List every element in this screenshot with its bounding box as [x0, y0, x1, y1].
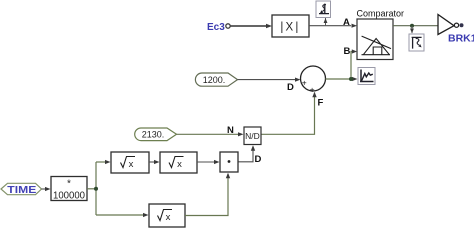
wire sqrt1 to sqrt2	[149, 160, 160, 164]
constant 2130	[135, 128, 177, 141]
svg-text:Comparator: Comparator	[357, 9, 405, 19]
junction node at gain output	[94, 187, 98, 191]
breaker output buffer triangle	[438, 15, 464, 35]
svg-text:N/D: N/D	[245, 131, 260, 141]
svg-text:*: *	[67, 179, 71, 190]
sqrt block X2	[160, 152, 197, 173]
wire gain output with junction split	[87, 162, 96, 215]
sqrt block X1	[111, 152, 149, 173]
svg-text:|X|: |X|	[280, 22, 300, 34]
sqrt block X3	[149, 204, 185, 227]
svg-text:A: A	[343, 17, 350, 28]
constant 1200	[195, 73, 237, 86]
wire Ec3 to abs block	[231, 24, 273, 28]
gain block *100000	[51, 177, 87, 202]
wire N/D output up to summer F input	[261, 92, 317, 135]
probe P2 (plot box)	[358, 68, 375, 85]
svg-text:B: B	[344, 46, 351, 57]
comparator block U1	[357, 19, 393, 60]
svg-text:+: +	[302, 78, 307, 88]
wire to bottom sqrt	[96, 213, 149, 217]
wire sqrt3 up to multiplier bottom input	[185, 173, 230, 216]
wire sqrt2 to multiplier	[197, 160, 220, 164]
wire 2130 to divider N input	[177, 132, 244, 136]
divider block N/D	[244, 127, 261, 145]
svg-text:N: N	[227, 125, 234, 136]
wire summer output to probe/junction	[326, 77, 358, 81]
wire multiplier output to divider D input	[238, 145, 255, 162]
svg-text:+: +	[310, 84, 315, 94]
wire to sqrt1	[96, 160, 111, 164]
svg-text:100000: 100000	[53, 190, 85, 202]
svg-text:x: x	[177, 159, 182, 170]
junction node on output wire	[410, 24, 414, 28]
svg-text:x: x	[166, 212, 171, 223]
probe P1 (tap above wire)	[316, 1, 331, 26]
svg-text:1200.: 1200.	[203, 75, 226, 85]
multiplier block M1	[220, 152, 238, 172]
wire abs to comparator A	[309, 24, 357, 28]
signal TIME	[1, 183, 42, 196]
svg-text:TIME: TIME	[7, 185, 36, 196]
svg-text:2130.: 2130.	[142, 130, 165, 140]
summing junction S1	[301, 66, 326, 94]
wire 1200 to summing junction	[238, 78, 301, 82]
svg-text:D: D	[287, 82, 294, 93]
svg-text:x: x	[129, 159, 134, 170]
svg-text:D: D	[255, 154, 262, 165]
svg-text:Ec3: Ec3	[207, 22, 225, 33]
junction node at summer output	[349, 77, 353, 81]
wire from summing junction up to comparator B	[351, 49, 357, 79]
probe P3 (tap below output wire)	[409, 26, 424, 51]
svg-text:F: F	[318, 98, 324, 109]
wire TIME to gain block	[42, 187, 51, 191]
abs block |X|	[272, 15, 309, 37]
wire comparator output to breaker triangle	[393, 25, 438, 27]
node Ec3 label	[207, 22, 230, 33]
svg-text:BRK1: BRK1	[448, 33, 474, 45]
